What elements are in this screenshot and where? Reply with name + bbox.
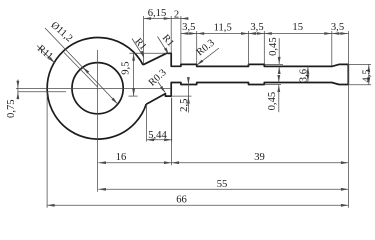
svg-text:Ø11,2: Ø11,2	[49, 20, 75, 45]
svg-text:3,6: 3,6	[298, 69, 309, 82]
svg-text:0,45: 0,45	[267, 92, 278, 111]
svg-text:R0.3: R0.3	[195, 38, 217, 59]
svg-text:3,5: 3,5	[182, 22, 195, 33]
svg-text:15: 15	[292, 22, 303, 33]
svg-text:2,5: 2,5	[179, 99, 190, 112]
svg-text:5,44: 5,44	[148, 130, 167, 141]
svg-text:2: 2	[174, 9, 179, 20]
svg-text:R1: R1	[160, 33, 176, 49]
svg-text:16: 16	[116, 152, 127, 163]
svg-text:11,5: 11,5	[214, 22, 232, 33]
svg-text:3,5: 3,5	[331, 22, 344, 33]
svg-text:39: 39	[254, 152, 265, 163]
svg-text:3,5: 3,5	[250, 22, 263, 33]
svg-text:R0.3: R0.3	[147, 67, 169, 88]
svg-text:0,75: 0,75	[6, 99, 17, 118]
svg-text:6,15: 6,15	[148, 8, 167, 19]
svg-text:0,45: 0,45	[268, 37, 279, 56]
svg-text:55: 55	[217, 179, 228, 190]
svg-text:9,5: 9,5	[121, 61, 132, 74]
svg-text:R1: R1	[132, 36, 148, 52]
svg-text:66: 66	[176, 194, 187, 205]
svg-text:4,5: 4,5	[362, 69, 373, 82]
